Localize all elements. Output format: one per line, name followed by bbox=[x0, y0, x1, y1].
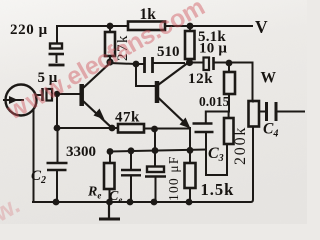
mic arrow bbox=[3, 99, 24, 101]
svg-text:3300: 3300 bbox=[66, 144, 96, 160]
resistor 1k bbox=[128, 22, 165, 31]
bottom rail bbox=[33, 127, 253, 203]
wire y111 bbox=[206, 112, 229, 123]
potentiometer W bbox=[249, 101, 260, 127]
node Ce bottom bbox=[127, 199, 134, 206]
capacitor 100uF bbox=[147, 167, 164, 173]
resistor 12k bbox=[224, 72, 235, 94]
wire C4 tap and output bbox=[259, 111, 304, 113]
capacitor 220u bbox=[49, 44, 65, 66]
svg-text:12k: 12k bbox=[188, 71, 213, 87]
svg-text:220 μ: 220 μ bbox=[10, 22, 48, 38]
wire 1.5k vertical bbox=[189, 128, 191, 202]
node 5u cap out bbox=[54, 91, 60, 97]
svg-text:510: 510 bbox=[157, 44, 180, 60]
ground bbox=[99, 204, 120, 219]
resistor 47k bbox=[118, 124, 144, 133]
transistor Q2 bbox=[157, 62, 191, 129]
wire C3 U-detour bbox=[206, 133, 227, 175]
resistor 5.1k bbox=[185, 31, 195, 59]
node 5.1k top bbox=[187, 23, 194, 30]
resistor 27k bbox=[105, 32, 115, 56]
svg-text:100 μF: 100 μF bbox=[166, 155, 181, 201]
wire Ce stubs bbox=[130, 151, 132, 202]
capacitor 10u bbox=[204, 58, 210, 71]
node 1.5k top bbox=[187, 147, 194, 154]
node 12k top bbox=[226, 60, 233, 67]
wire 10u row bbox=[194, 63, 253, 102]
node Q2 collector bbox=[186, 59, 193, 66]
node Q1 collector bbox=[106, 58, 113, 65]
top rail bbox=[57, 25, 252, 27]
svg-text:V: V bbox=[255, 17, 268, 37]
capacitor 510 bbox=[143, 57, 146, 73]
svg-text:W: W bbox=[261, 70, 277, 87]
wire 220u stub bbox=[56, 26, 58, 43]
capacitor 0.015 C3 bbox=[193, 122, 213, 125]
node Re top bbox=[107, 148, 114, 155]
node C2 top bbox=[54, 125, 61, 132]
wire emitter row y128 bbox=[57, 127, 189, 130]
wire Re stubs bbox=[109, 152, 112, 203]
node cap510 left bbox=[133, 61, 140, 68]
node 47k right bbox=[151, 126, 158, 133]
wire Q1 base bbox=[57, 93, 79, 95]
wire 100uF vertical bbox=[154, 129, 157, 202]
resistor 200k bbox=[224, 118, 234, 144]
wire 12k stubs bbox=[228, 63, 230, 112]
wire mid y63 bbox=[110, 63, 184, 64]
capacitor 5u bbox=[43, 88, 53, 101]
svg-text:47k: 47k bbox=[115, 110, 140, 126]
microphone MIC bbox=[6, 85, 37, 116]
svg-text:1.5k: 1.5k bbox=[201, 180, 235, 199]
wire mic right stub bbox=[37, 94, 43, 96]
node 100uF bottom bbox=[151, 199, 158, 206]
node Ce top bbox=[128, 147, 135, 154]
transistor Q1 bbox=[82, 63, 112, 128]
watermark main bbox=[0, 0, 209, 240]
wire row y150 bbox=[110, 150, 206, 152]
svg-text:200k: 200k bbox=[232, 126, 249, 165]
wire mic bottom lead bbox=[33, 111, 35, 202]
svg-text:10 μ: 10 μ bbox=[199, 41, 227, 57]
node C2 bottom bbox=[53, 199, 60, 206]
wire C2 vertical bbox=[56, 94, 59, 201]
node 100uF top bbox=[152, 147, 159, 154]
resistor 1.5k bbox=[185, 163, 196, 188]
wire W pot lower stub bbox=[252, 100, 254, 103]
node 27k top bbox=[107, 23, 114, 30]
node Re bottom bbox=[106, 199, 113, 206]
wire Q2 base L bbox=[136, 64, 155, 86]
capacitor C2 bbox=[47, 162, 68, 164]
capacitor C4 bbox=[265, 102, 268, 121]
capacitor Ce bbox=[121, 169, 141, 171]
node Q1 emitter bbox=[109, 125, 116, 132]
node 1.5k bottom bbox=[186, 199, 193, 206]
resistor Re bbox=[104, 163, 115, 189]
svg-text:0.015: 0.015 bbox=[199, 94, 230, 109]
